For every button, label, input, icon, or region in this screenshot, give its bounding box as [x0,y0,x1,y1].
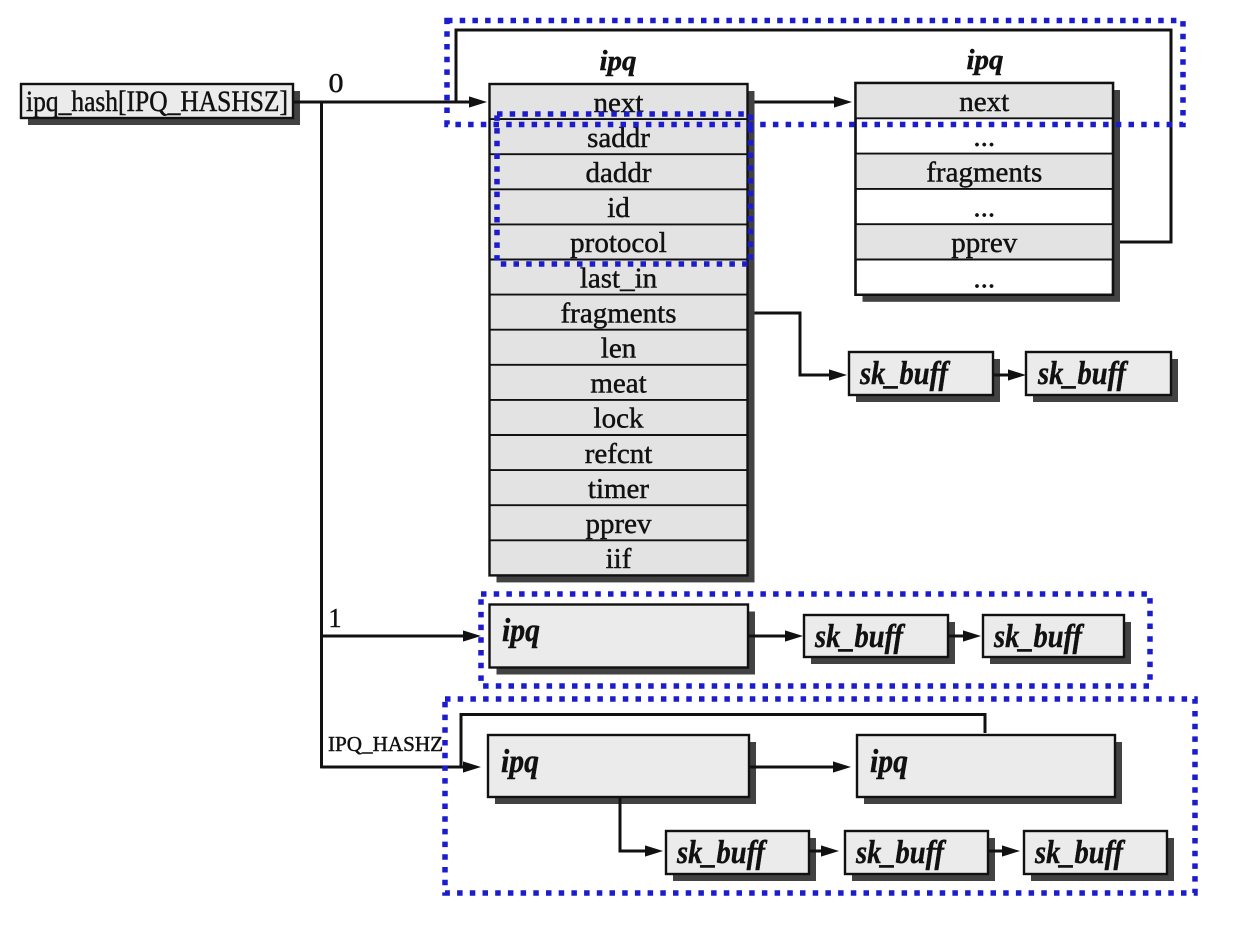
wire sk_buff1 to sk_buff2 [993,369,1026,380]
svg-text:sk_buff: sk_buff [676,835,767,871]
svg-text:ipq: ipq [502,613,540,649]
wire circular loop (bucket row 3) [461,715,985,768]
svg-text:daddr: daddr [585,157,651,189]
svg-text:...: ... [973,192,995,224]
struct ipq (bucket N, second) [857,735,1122,804]
svg-text:sk_buff: sk_buff [814,619,905,655]
svg-text:1: 1 [329,603,342,633]
svg-text:sk_buff: sk_buff [1034,835,1125,871]
svg-text:ipq: ipq [967,44,1004,76]
svg-text:next: next [959,86,1009,118]
struct ipq (bucket 1) [490,605,756,675]
wire sk_buff6 to sk_buff7 [988,845,1020,856]
sk_buff box 4 [983,615,1131,664]
svg-text:fragments: fragments [561,297,677,329]
struct ipq (bucket N, first) [488,735,756,804]
title ipq (struct 2) [967,44,1004,76]
wire ipq down to sk_buff chain [620,797,663,857]
wire sk_buff3 to sk_buff4 [948,630,981,641]
svg-text:pprev: pprev [585,508,652,540]
sk_buff box 2 [1026,352,1178,402]
svg-text:sk_buff: sk_buff [859,356,950,392]
svg-text:meat: meat [590,368,646,400]
svg-text:protocol: protocol [570,227,667,259]
wire bucket IPQ_HASHZ horizontal with arrow [322,761,482,772]
label 0 [329,68,344,98]
svg-text:id: id [607,192,630,224]
struct ipq (bucket 0, second element) [856,83,1121,302]
struct ipq (bucket 0, first element) [490,84,755,582]
svg-text:0: 0 [329,68,344,98]
svg-text:sk_buff: sk_buff [855,835,946,871]
svg-text:sk_buff: sk_buff [993,619,1084,655]
wire next pointer ipq1 to ipq2 with arrow [748,96,853,107]
dotted highlight rect B (saddr/daddr/id/protocol) [497,114,751,264]
dotted highlight rect C (bucket 1) [481,594,1150,686]
svg-text:len: len [601,333,637,365]
dotted highlight rect D (bucket N) [445,699,1195,893]
label IPQ_HASHZ [328,732,443,756]
wire circular-list loop (left vertical, top horizontal, right vertical, pprev stub) [456,30,1171,242]
svg-text:IPQ_HASHZ: IPQ_HASHZ [328,732,443,756]
title ipq (struct 1) [600,45,637,77]
hash array box ipq_hash[IPQ_HASHSZ] [21,84,300,125]
svg-text:sk_buff: sk_buff [1037,356,1128,392]
wire fragments pointer to sk_buff list [748,313,848,381]
wire sk_buff5 to sk_buff6 [809,845,839,856]
sk_buff box 1 (fragments of struct 1) [849,352,1000,402]
wire ipq to ipq (bucket N) [749,761,851,772]
label 1 [329,603,342,633]
sk_buff box 3 [804,615,955,664]
svg-text:ipq: ipq [600,45,637,77]
svg-text:iif: iif [606,543,632,575]
svg-text:lock: lock [594,403,644,435]
sk_buff box 5 [666,831,816,881]
svg-text:ipq_hash[IPQ_HASHSZ]: ipq_hash[IPQ_HASHSZ] [26,85,288,118]
svg-text:ipq: ipq [870,744,908,780]
wire ipq to sk_buff (bucket 1) [748,630,803,641]
wire bucket 0 horizontal with arrow [293,96,487,107]
svg-text:refcnt: refcnt [585,438,653,470]
dotted highlight rect A (next pointers region) [447,21,1183,125]
svg-text:pprev: pprev [951,227,1018,259]
svg-text:ipq: ipq [501,744,539,780]
sk_buff box 6 [845,831,995,881]
svg-text:timer: timer [588,473,650,505]
svg-text:...: ... [973,262,995,294]
wire hash spine vertical [320,101,323,769]
wire bucket 1 horizontal with arrow [322,630,482,641]
svg-text:last_in: last_in [580,262,658,294]
svg-text:fragments: fragments [926,156,1042,188]
sk_buff box 7 [1024,831,1174,881]
